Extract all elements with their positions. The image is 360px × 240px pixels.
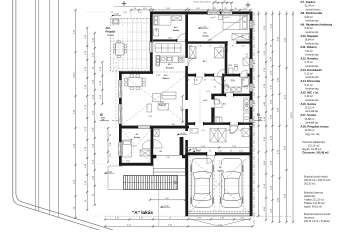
svg-text:15: 15 bbox=[169, 217, 171, 219]
car 2 in garage bbox=[219, 158, 243, 207]
svg-text:A8. Fürdőszoba: A8. Fürdőszoba bbox=[300, 11, 322, 15]
svg-text:Konyha: Konyha bbox=[166, 67, 175, 69]
svg-text:5,23: 5,23 bbox=[148, 116, 152, 118]
legend entry A16. Szoba bbox=[300, 102, 318, 113]
front door swing porch bbox=[154, 140, 163, 149]
svg-text:2,05: 2,05 bbox=[196, 8, 200, 10]
svg-text:1,02: 1,02 bbox=[206, 91, 209, 93]
svg-text:1,05: 1,05 bbox=[243, 8, 247, 10]
level mark -0,45 bbox=[111, 14, 121, 17]
svg-text:30: 30 bbox=[209, 150, 211, 152]
steps walk line bbox=[124, 181, 178, 184]
terrace paving dashed edge west bbox=[115, 62, 117, 128]
svg-text:A16. Szoba: A16. Szoba bbox=[300, 102, 316, 106]
svg-text:pm 90: pm 90 bbox=[225, 17, 230, 19]
svg-text:2,04: 2,04 bbox=[226, 87, 229, 89]
wall west living (A10) bbox=[119, 71, 122, 129]
survey cross top right bbox=[246, 3, 251, 8]
wardrobe A4 bbox=[140, 150, 150, 156]
svg-text:A3.: A3. bbox=[172, 123, 175, 126]
svg-text:1,97: 1,97 bbox=[180, 106, 182, 109]
svg-text:3,62: 3,62 bbox=[168, 38, 172, 40]
svg-text:A15.: A15. bbox=[228, 64, 233, 67]
hall fixtures bbox=[190, 129, 250, 137]
dimension row top small bbox=[212, 2, 233, 4]
svg-text:30: 30 bbox=[204, 80, 206, 82]
legend entry A14. Előszoba bbox=[300, 79, 320, 90]
svg-text:88: 88 bbox=[215, 1, 217, 3]
svg-text:A2.: A2. bbox=[159, 150, 163, 153]
roof eaves line above pergola bbox=[114, 6, 152, 8]
svg-text:2,19: 2,19 bbox=[201, 130, 204, 132]
svg-text:7,34 m²: 7,34 m² bbox=[305, 50, 314, 53]
text block gross area bbox=[304, 175, 331, 185]
wall south of A16 bbox=[153, 39, 188, 41]
level mark +0,02 bbox=[160, 206, 171, 208]
svg-text:terasz: terasz bbox=[108, 34, 115, 37]
svg-text:4,43: 4,43 bbox=[242, 34, 244, 37]
svg-text:12,22 m²: 12,22 m² bbox=[305, 107, 315, 110]
text block total area bbox=[304, 213, 331, 223]
svg-text:A8.: A8. bbox=[223, 80, 227, 83]
svg-text:30: 30 bbox=[187, 8, 189, 10]
svg-text:2,04: 2,04 bbox=[230, 80, 233, 82]
window right wall 1 bbox=[249, 59, 255, 68]
dimension row garage top bbox=[185, 147, 253, 149]
svg-text:3,00 cirkókazán: 3,00 cirkókazán bbox=[222, 92, 233, 94]
svg-text:A15. WC + kt.: A15. WC + kt. bbox=[300, 91, 319, 95]
svg-text:30: 30 bbox=[249, 150, 251, 152]
dimension column right 3 bbox=[271, 11, 273, 223]
kitchen upper counter bbox=[155, 44, 181, 52]
svg-text:1,40: 1,40 bbox=[194, 80, 197, 82]
wall outer top bbox=[150, 11, 253, 14]
extension line near A lakas bbox=[158, 176, 160, 226]
svg-text:Garázs: Garázs bbox=[217, 169, 225, 172]
level mark +0,50 A17 bbox=[198, 27, 209, 29]
hall wardrobe block bbox=[210, 128, 226, 142]
svg-text:1,40: 1,40 bbox=[218, 150, 221, 152]
svg-text:A13.: A13. bbox=[203, 99, 208, 102]
wardrobe A16 bbox=[172, 16, 182, 21]
door swing hall bbox=[230, 126, 238, 134]
level mark +0,50 hall bbox=[177, 133, 188, 135]
wall south lower (A4) bbox=[119, 163, 154, 166]
svg-text:1,10: 1,10 bbox=[226, 130, 229, 132]
dimension row bottom 1 bbox=[104, 218, 251, 220]
svg-text:1,96: 1,96 bbox=[240, 217, 244, 219]
svg-text:A4.: A4. bbox=[135, 133, 139, 136]
svg-text:1,30: 1,30 bbox=[241, 80, 244, 82]
dining table set bbox=[125, 75, 146, 90]
svg-text:Szoba: Szoba bbox=[134, 137, 141, 139]
bathtub A8 bbox=[242, 77, 250, 86]
wardrobe A14 bbox=[190, 47, 224, 59]
svg-text:3,46: 3,46 bbox=[168, 224, 172, 226]
garage door front bbox=[188, 211, 249, 216]
window W2 top wall bbox=[221, 11, 232, 15]
wall garage west bbox=[185, 152, 188, 216]
svg-text:2,76: 2,76 bbox=[220, 217, 224, 219]
svg-text:3,62: 3,62 bbox=[166, 8, 170, 10]
svg-text:A11.: A11. bbox=[164, 74, 169, 77]
svg-text:A17. Szoba: A17. Szoba bbox=[300, 113, 316, 117]
svg-text:A10. Nappali: A10. Nappali bbox=[300, 34, 318, 38]
legend entry A18. Pergolás terasz bbox=[300, 124, 329, 135]
extension lines top margin bbox=[131, 10, 251, 18]
svg-text:1,20: 1,20 bbox=[247, 85, 249, 88]
sink A8 bbox=[231, 87, 242, 92]
door swing A16 bbox=[177, 34, 185, 42]
svg-text:Pergolás: Pergolás bbox=[106, 31, 116, 33]
setback line 2 bbox=[38, 0, 40, 211]
door swing A15 bbox=[240, 70, 247, 77]
ceiling diagonal A4 room 1 bbox=[122, 130, 150, 162]
svg-text:30: 30 bbox=[250, 46, 252, 48]
svg-text:45: 45 bbox=[111, 12, 113, 14]
svg-text:30: 30 bbox=[151, 8, 153, 10]
kitchen dining dashed boundary bbox=[153, 71, 185, 73]
svg-text:1,58: 1,58 bbox=[239, 150, 242, 152]
svg-text:A18.: A18. bbox=[106, 27, 111, 30]
wall left upper (A16 west) bbox=[150, 11, 153, 72]
level mark +0,00 garage bbox=[189, 148, 198, 150]
svg-text:4,75: 4,75 bbox=[127, 224, 131, 226]
WC fixtures A15 bbox=[229, 58, 250, 74]
glass door west living bbox=[119, 80, 122, 98]
bed A4 bbox=[123, 140, 132, 157]
svg-text:78: 78 bbox=[224, 1, 226, 3]
door gaps corridor north bbox=[196, 74, 205, 77]
svg-text:4,75: 4,75 bbox=[115, 217, 119, 219]
room label A18 Pergolás terasz bbox=[105, 26, 128, 37]
svg-text:30: 30 bbox=[250, 80, 252, 82]
svg-text:292,31 m2 (A + B lakás): 292,31 m2 (A + B lakás) bbox=[304, 220, 330, 223]
terrace furniture table and chairs bbox=[114, 41, 127, 58]
door gaps y124 wall bbox=[195, 122, 203, 125]
svg-text:30: 30 bbox=[221, 80, 223, 82]
pergola terrace outline bbox=[111, 19, 151, 72]
svg-text:12,96 m²: 12,96 m² bbox=[305, 129, 315, 132]
dimension column left 3 bbox=[94, 32, 96, 206]
svg-text:90: 90 bbox=[230, 150, 232, 152]
wall garage north bbox=[185, 152, 252, 155]
legend entry A10. Nappali bbox=[300, 34, 319, 45]
dresser A16 bbox=[154, 29, 159, 36]
svg-text:16,20: 16,20 bbox=[291, 111, 293, 117]
svg-text:1,30: 1,30 bbox=[242, 87, 245, 89]
svg-text:2,04: 2,04 bbox=[126, 161, 129, 163]
svg-text:A11. Étkező: A11. Étkező bbox=[300, 44, 316, 49]
kitchen fridge column bbox=[156, 55, 160, 66]
parking stall dashed side lines bbox=[190, 160, 243, 211]
door swing corridor mid bbox=[214, 76, 222, 84]
svg-text:13,68 m²: 13,68 m² bbox=[305, 118, 315, 121]
svg-text:A7.: A7. bbox=[219, 166, 223, 169]
svg-text:3,95: 3,95 bbox=[131, 145, 135, 147]
svg-text:1,50: 1,50 bbox=[123, 12, 126, 14]
door gap A8 south bbox=[226, 93, 233, 96]
ceiling diagonal living 1 bbox=[122, 74, 188, 125]
svg-text:1,55: 1,55 bbox=[110, 153, 112, 156]
svg-text:5,12 m²: 5,12 m² bbox=[305, 73, 314, 76]
legend entry A7. Garázs bbox=[300, 0, 321, 11]
closet hall corner bbox=[154, 129, 160, 136]
setback line 4 bbox=[58, 0, 60, 217]
toilet A8 bbox=[225, 84, 229, 90]
dimension row porch 2,40 bbox=[149, 199, 186, 201]
svg-text:fagy. ker. lap: fagy. ker. lap bbox=[306, 133, 321, 136]
porch column left bbox=[153, 155, 157, 159]
svg-text:Étkező: Étkező bbox=[163, 77, 170, 80]
door swing hall right bbox=[230, 125, 238, 133]
svg-text:egyéb: 49,51 m2: egyéb: 49,51 m2 bbox=[304, 205, 322, 208]
dimension line inside x182 bbox=[181, 95, 183, 123]
dimension column right 5 bbox=[285, 11, 287, 223]
dimension row bottom 2 bbox=[104, 225, 254, 227]
legend entry A9. Háztartási helyiség bbox=[300, 23, 332, 34]
svg-text:1,30: 1,30 bbox=[233, 153, 236, 155]
counter A9 bbox=[216, 113, 250, 123]
svg-text:pm 90: pm 90 bbox=[211, 17, 216, 19]
walkway lines lower left bbox=[108, 166, 124, 190]
svg-text:1,85: 1,85 bbox=[238, 130, 241, 132]
svg-text:15: 15 bbox=[209, 46, 211, 48]
svg-text:4,75: 4,75 bbox=[139, 217, 143, 219]
patio door living south bbox=[138, 125, 150, 128]
svg-text:A12.: A12. bbox=[168, 63, 173, 66]
svg-text:A9.: A9. bbox=[223, 103, 227, 106]
roof slope diagonal A17 bbox=[206, 13, 251, 42]
svg-text:2,98: 2,98 bbox=[201, 146, 205, 148]
legend entry A12. Konyha bbox=[300, 57, 319, 68]
svg-text:1,50: 1,50 bbox=[138, 12, 141, 14]
door swing garage bbox=[207, 155, 215, 163]
door gap garage north bbox=[207, 152, 215, 155]
dimension column left 1 bbox=[74, 9, 76, 219]
survey cross top left bbox=[122, 1, 127, 6]
garage door swing dashed X bbox=[189, 156, 249, 213]
section marker B left bbox=[100, 113, 120, 121]
wall living south bbox=[119, 126, 189, 129]
svg-text:4,04: 4,04 bbox=[156, 28, 158, 31]
legend entry A17. Szoba bbox=[300, 113, 318, 124]
entrance steps hatch bbox=[124, 176, 178, 190]
svg-text:A7. Garázs: A7. Garázs bbox=[300, 0, 315, 4]
svg-text:6,90 m²: 6,90 m² bbox=[305, 16, 314, 19]
wall between A16 and A17 bbox=[185, 14, 188, 41]
svg-text:A9. Háztartási helyiség: A9. Háztartási helyiség bbox=[300, 23, 332, 27]
dimension column left 2 bbox=[86, 27, 88, 211]
porch outline bbox=[153, 155, 185, 175]
wall connector west top bbox=[119, 71, 153, 74]
legend entry A15. WC + kt. bbox=[300, 91, 319, 102]
svg-text:2,40: 2,40 bbox=[196, 150, 199, 152]
pergola beams bbox=[111, 19, 150, 71]
svg-text:Szoba: Szoba bbox=[173, 30, 180, 32]
svg-text:A10.: A10. bbox=[160, 101, 165, 104]
svg-text:A12. Konyha: A12. Konyha bbox=[300, 57, 318, 61]
svg-text:1,03: 1,03 bbox=[211, 80, 214, 82]
window right wall 3 bbox=[249, 100, 255, 107]
wall south of A9 / corridor (y124) bbox=[185, 122, 252, 125]
svg-text:31,34 m²: 31,34 m² bbox=[305, 5, 315, 8]
svg-text:90: 90 bbox=[218, 153, 220, 155]
extension lines top bbox=[214, 3, 232, 14]
svg-text:1,58: 1,58 bbox=[241, 46, 244, 48]
car 1 in garage bbox=[190, 158, 214, 207]
door swing A9 bbox=[215, 100, 223, 108]
legend summary block bbox=[303, 141, 330, 155]
dimension column left 4 bbox=[101, 61, 103, 105]
garage apron dotted line bbox=[105, 215, 291, 217]
dimension column right 4 bbox=[278, 11, 280, 223]
svg-text:A14.: A14. bbox=[203, 60, 208, 63]
terrace grill rects bbox=[113, 19, 120, 24]
svg-text:Szoba: Szoba bbox=[202, 36, 209, 38]
window W1 top wall bbox=[208, 11, 221, 15]
svg-text:30: 30 bbox=[188, 80, 190, 82]
door swing A4 bbox=[142, 140, 151, 149]
svg-text:1,85: 1,85 bbox=[166, 157, 169, 159]
svg-text:3,44 m²: 3,44 m² bbox=[305, 95, 314, 98]
wall west lower (A4 area) bbox=[119, 129, 122, 167]
porch column right bbox=[182, 155, 186, 159]
site boundary double line left bbox=[13, 0, 113, 230]
svg-text:5,76 m²: 5,76 m² bbox=[305, 61, 314, 64]
extension lines left margin bbox=[76, 12, 150, 216]
bed A16 bbox=[154, 16, 172, 26]
door swing A17 bbox=[219, 44, 228, 53]
svg-text:95: 95 bbox=[225, 8, 227, 10]
kitchen counter A12 bbox=[160, 56, 184, 62]
wardrobe A17 bbox=[232, 34, 249, 41]
wall A14-A15 partition bbox=[225, 44, 228, 74]
svg-text:1,50: 1,50 bbox=[247, 103, 249, 106]
svg-text:45: 45 bbox=[110, 134, 112, 136]
door jambs at wall openings bbox=[176, 39, 248, 156]
wall entrance east side bbox=[151, 129, 154, 166]
svg-text:Egyéb: 31,36 m2: Egyéb: 31,36 m2 bbox=[303, 148, 323, 151]
section marker B right bbox=[254, 113, 263, 121]
svg-text:1,40: 1,40 bbox=[219, 46, 222, 48]
text block useful area bbox=[304, 191, 325, 208]
svg-text:1,90: 1,90 bbox=[225, 153, 228, 155]
svg-text:A17.: A17. bbox=[203, 32, 208, 35]
svg-text:Tetősík ablak 90/120: Tetősík ablak 90/120 bbox=[193, 1, 210, 4]
bed A17 bbox=[223, 15, 248, 30]
door swings corridor bbox=[188, 58, 225, 85]
svg-text:90: 90 bbox=[214, 130, 216, 132]
garage door V symbol below plan bbox=[189, 219, 250, 227]
svg-text:18,84 m²: 18,84 m² bbox=[305, 39, 315, 42]
svg-text:361,33 m2: 361,33 m2 bbox=[304, 182, 316, 185]
svg-text:90: 90 bbox=[134, 8, 136, 10]
dimension column x108 bbox=[107, 127, 109, 163]
svg-text:5,99 m²: 5,99 m² bbox=[305, 27, 314, 30]
svg-text:A13. Közlekedő: A13. Közlekedő bbox=[300, 68, 322, 72]
svg-text:30: 30 bbox=[188, 150, 190, 152]
dimension column right 6 bbox=[292, 11, 294, 223]
window right wall 2 bbox=[249, 84, 255, 92]
level mark +0,02 porch bbox=[193, 150, 202, 152]
wall A13-A8 vertical bbox=[222, 76, 225, 94]
window west living 2 bbox=[119, 104, 122, 124]
svg-text:A18. Pergolás terasz: A18. Pergolás terasz bbox=[300, 124, 329, 128]
sofa set A10 bbox=[147, 92, 176, 112]
room label A7 Garázs bbox=[216, 165, 227, 173]
window right wall 4 bbox=[249, 119, 255, 126]
svg-text:A14. Előszoba: A14. Előszoba bbox=[300, 79, 320, 83]
wall south of A17 bbox=[185, 41, 252, 43]
dimension row top main bbox=[130, 9, 252, 11]
svg-text:90: 90 bbox=[232, 46, 234, 48]
svg-text:1,76: 1,76 bbox=[198, 46, 201, 48]
wall outer right bbox=[250, 11, 253, 216]
legend entry A11. Étkező bbox=[300, 44, 319, 56]
svg-text:1,40: 1,40 bbox=[129, 139, 132, 141]
svg-text:30: 30 bbox=[190, 46, 192, 48]
svg-text:18,15: 18,15 bbox=[73, 72, 75, 78]
level mark -0,30 bbox=[104, 172, 115, 174]
svg-text:A16.: A16. bbox=[174, 26, 179, 29]
dotted line corridor bbox=[199, 90, 201, 123]
setback line 3 bbox=[49, 0, 51, 214]
washer dryer A9 bbox=[244, 98, 250, 111]
svg-text:90: 90 bbox=[191, 130, 193, 132]
wall corridor west vertical bbox=[185, 41, 188, 152]
door gap south A17 bbox=[228, 41, 237, 44]
legend entry A8. Fürdőszoba bbox=[300, 11, 322, 22]
wall A8 south bbox=[211, 94, 252, 97]
svg-text:90: 90 bbox=[214, 87, 216, 89]
door gap A9 west bbox=[211, 100, 215, 108]
svg-text:5,37 m²: 5,37 m² bbox=[305, 84, 314, 87]
door gaps corridor west bbox=[185, 58, 188, 66]
svg-text:2,76: 2,76 bbox=[232, 146, 236, 148]
svg-text:90: 90 bbox=[235, 8, 237, 10]
setback line 1 bbox=[34, 0, 36, 210]
night stand A17 bbox=[219, 16, 223, 20]
svg-text:1,40: 1,40 bbox=[110, 142, 112, 145]
wall stub porch east bbox=[180, 137, 184, 155]
dimension column right 2 bbox=[265, 11, 267, 221]
svg-text:1,20: 1,20 bbox=[143, 8, 147, 10]
dimension column right 1 bbox=[257, 11, 259, 217]
ceiling diagonal A4 room 2 bbox=[122, 130, 150, 162]
terrace door opening left upper wall bbox=[150, 42, 153, 53]
ceiling diagonal living 2 bbox=[122, 74, 188, 125]
svg-text:1,50: 1,50 bbox=[247, 53, 249, 56]
window right wall A17 top bbox=[249, 21, 255, 29]
symmetry axis line bbox=[253, 12, 255, 228]
door gap south A16 bbox=[177, 39, 185, 42]
svg-text:2,40: 2,40 bbox=[165, 198, 169, 200]
garage dotted mid line bbox=[189, 185, 249, 187]
svg-text:Nappali: Nappali bbox=[159, 105, 167, 107]
boiler A9 bbox=[214, 99, 220, 123]
svg-text:7,26: 7,26 bbox=[156, 75, 160, 77]
wall corridor north (y75) bbox=[185, 74, 252, 77]
legend entry A13. Közlekedő bbox=[300, 68, 322, 79]
window A4 west wall bbox=[119, 142, 122, 156]
svg-text:"A" lakás: "A" lakás bbox=[132, 210, 153, 215]
svg-text:1,29: 1,29 bbox=[212, 8, 216, 10]
svg-text:2,98: 2,98 bbox=[197, 217, 201, 219]
wall A9 east vertical bbox=[211, 95, 214, 122]
svg-text:2,10: 2,10 bbox=[131, 71, 135, 73]
